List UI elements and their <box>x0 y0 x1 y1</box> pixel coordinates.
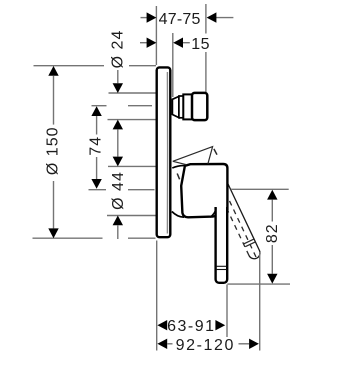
lever grip (down position) <box>210 207 227 283</box>
dimension 15 (top) <box>140 36 210 53</box>
dimension 47-75 (top) <box>141 11 234 28</box>
extension line knob bottom (y=119.6) <box>108 119 157 121</box>
svg-text:15: 15 <box>191 36 210 53</box>
extension line plate bottom (y=238.2) <box>33 237 103 239</box>
extension line knob neck face (x=172.8) <box>172 33 174 97</box>
svg-text:63-91: 63-91 <box>167 318 215 335</box>
dimension 74 (left) <box>87 106 104 189</box>
dimension 82 (right) <box>227 189 290 284</box>
svg-text:92-120: 92-120 <box>176 337 235 354</box>
dimension 92-120 (bottom) <box>157 337 259 354</box>
extension line plate top (y=65.7) <box>34 65 105 67</box>
cartridge collar between plate and hub <box>172 166 185 218</box>
extension line handle hub bottom (y=215.5) <box>107 215 156 217</box>
handle hub (lever body) <box>181 164 227 217</box>
svg-text:47-75: 47-75 <box>159 11 201 28</box>
extension line lever edge bottom (x=227) <box>226 285 228 338</box>
svg-text:74: 74 <box>87 136 104 156</box>
escutcheon plate (side view) <box>157 67 171 237</box>
dimension D24 (left, knob) <box>109 30 126 167</box>
dimension 63-91 (bottom) <box>157 318 225 335</box>
centerline knob axis (y=105.7) <box>92 105 107 107</box>
svg-text:Ø 150: Ø 150 <box>44 127 61 176</box>
dashed lever (open position, rotated copy of grip) <box>214 177 262 260</box>
extension line wall/plate-back top (x=156.4) <box>155 6 157 65</box>
dimension D44 (left, handle hub) <box>110 171 127 239</box>
diverter knob body <box>192 93 207 120</box>
diverter knob taper <box>172 96 179 117</box>
extension line plate-back bottom (x=156.7) <box>156 241 158 351</box>
lever raised position (thin outline flag) <box>173 147 217 180</box>
svg-text:82: 82 <box>264 223 281 243</box>
diverter knob collar <box>183 94 192 119</box>
extension line handle hub top (y=166.4) <box>108 165 157 167</box>
extension line knob outer face (x=205.9) <box>205 4 207 34</box>
extension line open-lever reach (x=259.7) <box>259 252 261 351</box>
centerline handle axis (y=189.7) <box>89 189 107 191</box>
svg-text:Ø 44: Ø 44 <box>110 171 127 210</box>
dimension D150 (left) <box>44 66 61 238</box>
diverter knob ring <box>179 96 183 118</box>
svg-text:Ø 24: Ø 24 <box>109 30 126 69</box>
extension line knob top (y=93) <box>109 92 157 94</box>
